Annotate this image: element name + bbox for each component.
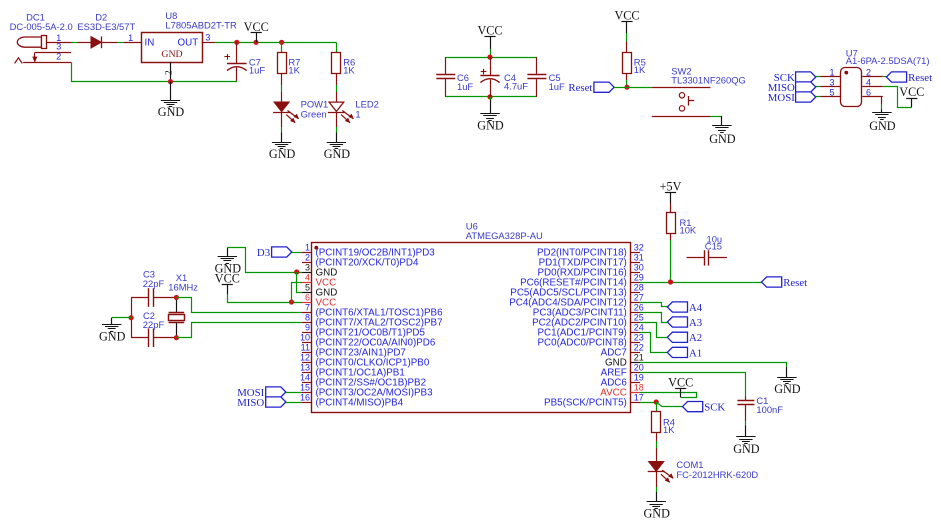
- svg-text:A1-6PA-2.5DSA(71): A1-6PA-2.5DSA(71): [846, 55, 930, 66]
- resistor R6 1K: [332, 53, 341, 74]
- wire U6 pin24 to A1: [640, 333, 667, 353]
- wire pin3 to pin5: [297, 272, 303, 293]
- crystal X1 16MHz: [168, 272, 198, 338]
- svg-text:31: 31: [634, 253, 644, 263]
- U6 pin 26 PC3(ADC3/PCINT11): [533, 303, 644, 319]
- svg-text:Green: Green: [301, 108, 327, 119]
- svg-text:SCK: SCK: [704, 402, 725, 414]
- net flag Reset (left of R5): [594, 82, 614, 92]
- svg-text:GND: GND: [99, 329, 126, 343]
- U6 pin 29 PC6(RESET#/PCINT14): [520, 273, 644, 289]
- svg-text:9: 9: [305, 323, 310, 333]
- wire U6 pin29 to Reset flag: [640, 282, 762, 284]
- svg-text:GND: GND: [324, 147, 351, 161]
- svg-text:22: 22: [634, 343, 644, 353]
- svg-text:21: 21: [634, 353, 644, 363]
- net flag Reset (right of U7): [886, 72, 906, 82]
- U6 pin 25 PC2(ADC2/PCINT10): [532, 313, 644, 329]
- svg-text:1K: 1K: [343, 64, 355, 75]
- wire D3 flag to pin1: [292, 252, 302, 254]
- svg-text:4.7uF: 4.7uF: [504, 81, 528, 92]
- U6 pin 27 PC4(ADC4/SDA/PCINT12): [509, 293, 644, 309]
- U6 pin 2 (PCINT20/XCK/T0)PD4: [302, 253, 419, 269]
- net flag SCK (to U7 pin1): [796, 72, 816, 82]
- diode D2 ES3D-E3/57T: [77, 12, 135, 49]
- svg-text:GND: GND: [161, 49, 182, 60]
- svg-text:1: 1: [829, 68, 834, 78]
- capacitor C1 100nF: [737, 395, 783, 422]
- svg-text:26: 26: [634, 303, 644, 313]
- svg-text:1: 1: [355, 108, 360, 119]
- capacitor C4 4.7uF (polarized): [480, 57, 528, 97]
- svg-text:24: 24: [634, 323, 644, 333]
- svg-text:3: 3: [56, 42, 61, 52]
- U6 pin 7 (PCINT6/XTAL1/TOSC1)PB6: [302, 303, 443, 319]
- svg-text:22pF: 22pF: [143, 278, 165, 289]
- wire U6 pin18 AVCC to VCC: [640, 393, 697, 398]
- U6 pin 8 (PCINT7/XTAL2/TOSC2)PB7: [302, 313, 443, 329]
- wire U6 pin26 to A3: [640, 313, 667, 323]
- svg-text:23: 23: [634, 333, 644, 343]
- svg-text:ES3D-E3/57T: ES3D-E3/57T: [77, 21, 135, 32]
- svg-text:PB5(SCK/PCINT5): PB5(SCK/PCINT5): [544, 398, 627, 409]
- svg-text:VCC: VCC: [899, 85, 924, 99]
- capacitor C2 22pF: [131, 310, 176, 347]
- U6 pin 6 VCC: [302, 293, 336, 309]
- wire XTAL1 to U6 pin7: [176, 298, 302, 313]
- U6 pin 12 (PCINT0/CLKO/ICP1)PB0: [300, 353, 430, 369]
- ground GND (below C1): [745, 426, 747, 438]
- wire cap group top rail: [446, 57, 537, 59]
- svg-text:1K: 1K: [663, 424, 675, 435]
- svg-text:GND: GND: [733, 442, 760, 456]
- svg-text:27: 27: [634, 293, 644, 303]
- svg-text:32: 32: [634, 243, 644, 253]
- ground GND (below LED2): [336, 133, 338, 143]
- svg-text:GND: GND: [269, 147, 296, 161]
- wire R7 to POW1: [281, 73, 283, 85]
- net flag D3 (U6 pin1): [272, 247, 292, 257]
- junction at C7: [234, 40, 239, 45]
- connector DC1 DC-005-5A-2.0 (DC barrel jack): [10, 12, 73, 64]
- U6 pin 1 (PCINT19/OC2B/INT1)PD3: [302, 243, 435, 259]
- wire reset node to SW2: [614, 87, 627, 89]
- svg-text:6: 6: [305, 293, 310, 303]
- svg-text:22pF: 22pF: [143, 319, 165, 330]
- svg-text:ATMEGA328P-AU: ATMEGA328P-AU: [466, 230, 543, 241]
- capacitor C6 1uF: [436, 57, 473, 97]
- svg-text:25: 25: [634, 313, 644, 323]
- wire R4 to COM1: [656, 433, 658, 441]
- svg-text:2: 2: [56, 51, 61, 61]
- svg-text:Reset: Reset: [908, 72, 932, 84]
- U6 pin 22 ADC7: [601, 343, 644, 359]
- wire MISO flag to pin16: [286, 402, 302, 404]
- svg-text:3: 3: [829, 78, 834, 88]
- junction XTAL2: [174, 335, 179, 340]
- ground GND (cap group): [490, 100, 492, 114]
- capacitor C15 10u: [687, 233, 727, 265]
- svg-text:30: 30: [634, 263, 644, 273]
- svg-text:GND: GND: [869, 119, 896, 133]
- U6 pin 20 AREF: [601, 363, 644, 379]
- switch SW2 TL3301NF260QG: [652, 66, 746, 117]
- U6 pin 30 PD0(RXD/PCINT16): [538, 263, 644, 279]
- junction crystal gnd: [129, 315, 134, 320]
- ground GND (left of U6): [227, 248, 229, 257]
- svg-text:16MHz: 16MHz: [168, 281, 198, 292]
- wire R5 to reset node: [626, 73, 628, 80]
- svg-text:A1: A1: [689, 347, 702, 359]
- wire XTAL2 to U6 pin8: [176, 323, 302, 338]
- svg-text:3: 3: [205, 33, 210, 43]
- svg-text:Reset: Reset: [568, 82, 592, 94]
- net flag SCK (pin17): [683, 402, 703, 412]
- wire POW1 to ground: [281, 112, 283, 127]
- svg-text:12: 12: [300, 353, 310, 363]
- wire DC1 pin1 to D2 anode: [72, 42, 78, 44]
- U6 pin 18 AVCC: [600, 383, 644, 399]
- resistor R7 1K: [278, 53, 287, 74]
- wire MOSI flag to U7: [816, 96, 821, 98]
- svg-text:1: 1: [128, 33, 133, 43]
- junction at VCC stub: [253, 40, 258, 45]
- wire U7 pin4 to VCC: [883, 87, 912, 108]
- capacitor C5 1uF: [527, 57, 565, 97]
- wire MISO flag to U7: [816, 86, 821, 88]
- U6 pin 4 VCC: [302, 273, 336, 289]
- U6 pin 11 (PCINT23/AIN1)PD7: [301, 343, 406, 359]
- regulator U8 L7805ABD2T-TR: [124, 10, 237, 63]
- svg-text:A4: A4: [689, 302, 703, 314]
- svg-text:7: 7: [305, 303, 310, 313]
- wire U6 pin17 to SCK node: [640, 402, 656, 404]
- net flag MISO (to U7 pin3): [796, 82, 816, 92]
- wire U6 pin27 to A4: [640, 303, 667, 307]
- ground GND (below SW2): [721, 116, 723, 126]
- svg-text:20: 20: [634, 363, 644, 373]
- svg-text:GND: GND: [709, 132, 736, 146]
- U6 pin 31 PD1(TXD/PCINT17): [539, 253, 644, 269]
- wire D2 cathode to U8 IN: [117, 42, 124, 44]
- svg-text:MISO: MISO: [237, 397, 264, 409]
- svg-text:GND: GND: [158, 105, 185, 119]
- svg-text:VCC: VCC: [244, 20, 269, 34]
- wire U6 pin21 to ground: [640, 363, 787, 368]
- microcontroller U6 ATMEGA328P-AU: [312, 221, 631, 413]
- svg-text:A3: A3: [689, 317, 702, 329]
- svg-text:Reset: Reset: [783, 277, 807, 289]
- wire GND to U6 pin3: [227, 248, 302, 273]
- svg-text:1K: 1K: [634, 64, 646, 75]
- svg-text:GND: GND: [774, 382, 801, 396]
- wire to ground (cap group): [490, 97, 492, 100]
- U6 pin 15 (PCINT3/OC2A/MOSI)PB3: [300, 383, 433, 399]
- svg-text:16: 16: [300, 393, 310, 403]
- junction at U8 GND: [168, 79, 173, 84]
- wire pin6 to pin4: [292, 283, 303, 303]
- pin 2 of U8 to ground rail: [170, 62, 172, 82]
- net flag A4: [667, 302, 687, 312]
- svg-text:C15: C15: [705, 241, 722, 252]
- wire R6 to LED2: [336, 73, 338, 85]
- junction at pin3: [294, 269, 299, 274]
- connector U7 A1-6PA-2.5DSA(71): [820, 47, 929, 106]
- junction bottom of C4: [487, 94, 492, 99]
- ground GND (below U7): [881, 110, 883, 113]
- net flag A1: [667, 347, 687, 357]
- net flag A2: [667, 332, 687, 342]
- LED POW1 Green: [274, 102, 289, 111]
- wire C1 to ground: [745, 421, 747, 425]
- U6 pin 16 (PCINT4/MISO)PB4: [300, 393, 404, 409]
- wire COM1 to ground: [656, 472, 658, 487]
- net flag MOSI (to U7 pin5): [796, 92, 816, 102]
- U6 pin 3 GND: [302, 263, 337, 279]
- U6 pin 9 (PCINT21/OC0B/T1)PD5: [302, 323, 425, 339]
- capacitor C3 22pF: [131, 269, 176, 307]
- svg-text:10K: 10K: [680, 225, 697, 236]
- wire VCC rail to R6: [336, 42, 338, 52]
- ground GND (below U8): [170, 82, 172, 101]
- LED COM1 FC-2012HRK-620D: [649, 462, 664, 471]
- wire to crystal ground: [112, 317, 131, 319]
- LED LED2 1: [329, 102, 344, 111]
- svg-text:15: 15: [300, 383, 310, 393]
- wire U6 pin20 AREF to C1: [640, 373, 746, 397]
- svg-text:D3: D3: [257, 247, 270, 259]
- wire R1 to reset net: [670, 234, 672, 240]
- net flag MOSI (U6 pin15): [266, 387, 286, 397]
- svg-text:2: 2: [305, 253, 310, 263]
- wire cap group bottom rail: [446, 96, 537, 98]
- resistor R4 1K: [652, 412, 661, 433]
- U6 pin 5 GND: [302, 283, 337, 299]
- svg-text:(PCINT4/MISO)PB4: (PCINT4/MISO)PB4: [316, 398, 404, 409]
- svg-text:14: 14: [300, 373, 310, 383]
- svg-text:1K: 1K: [288, 64, 300, 75]
- svg-text:11: 11: [301, 343, 310, 353]
- wire U7 pin6 to ground: [881, 97, 883, 104]
- svg-text:10: 10: [300, 333, 310, 343]
- U6 pin 10 (PCINT22/OC0A/AIN0)PD6: [300, 333, 436, 349]
- svg-text:6: 6: [866, 88, 871, 98]
- ground GND (crystal): [111, 318, 113, 325]
- capacitor C7 1uF (polarized): [224, 42, 265, 81]
- junction top of C4: [487, 55, 492, 60]
- svg-text:13: 13: [300, 363, 310, 373]
- svg-text:GND: GND: [643, 507, 670, 521]
- svg-text:FC-2012HRK-620D: FC-2012HRK-620D: [676, 469, 758, 480]
- wire MOSI flag to pin15: [286, 392, 302, 394]
- svg-text:MOSI: MOSI: [768, 92, 795, 104]
- wire ground return rail: [72, 62, 238, 81]
- svg-text:DC-005-5A-2.0: DC-005-5A-2.0: [10, 21, 73, 32]
- svg-text:L7805ABD2T-TR: L7805ABD2T-TR: [165, 19, 237, 30]
- net flag A3: [667, 317, 687, 327]
- svg-text:VCC: VCC: [668, 375, 693, 389]
- wire VCC to U6 pin6: [228, 294, 303, 303]
- svg-text:8: 8: [305, 313, 310, 323]
- wire SCK flag to U7: [816, 76, 821, 78]
- U6 pin 28 PC5(ADC5/SCL/PCINT13): [510, 283, 644, 299]
- svg-text:TL3301NF260QG: TL3301NF260QG: [671, 75, 746, 86]
- svg-text:2: 2: [165, 70, 175, 75]
- svg-text:VCC: VCC: [477, 24, 502, 38]
- junction pin17: [654, 399, 659, 404]
- U6 pin 23 PC0(ADC0/PCINT8): [538, 333, 644, 349]
- junction at pin6: [289, 299, 294, 304]
- svg-text:18: 18: [634, 383, 644, 393]
- junction XTAL1: [174, 295, 179, 300]
- svg-text:VCC: VCC: [614, 9, 639, 23]
- svg-text:OUT: OUT: [178, 38, 199, 49]
- svg-text:1uF: 1uF: [457, 81, 473, 92]
- wire U6 pin25 to A2: [640, 323, 667, 338]
- svg-text:29: 29: [634, 273, 644, 283]
- svg-text:4: 4: [866, 78, 871, 88]
- wire LED2 to ground: [336, 112, 338, 127]
- svg-text:5: 5: [305, 283, 310, 293]
- U6 pin 24 PC1(ADC1/PCINT9): [538, 323, 644, 339]
- junction reset node: [624, 85, 629, 90]
- U6 pin 17 PB5(SCK/PCINT5): [544, 393, 644, 409]
- svg-text:3: 3: [305, 263, 310, 273]
- wire SW2 to ground: [710, 116, 722, 118]
- U6 pin 19 ADC6: [601, 373, 644, 389]
- svg-text:+5V: +5V: [660, 179, 682, 193]
- svg-text:2: 2: [866, 68, 871, 78]
- svg-text:17: 17: [634, 393, 644, 403]
- ground GND (below POW1): [281, 133, 283, 143]
- svg-text:4: 4: [305, 273, 310, 283]
- wire to SCK flag: [656, 402, 682, 407]
- svg-text:100nF: 100nF: [756, 404, 783, 415]
- svg-text:28: 28: [634, 283, 644, 293]
- U6 pin 21 GND: [605, 353, 644, 369]
- wire VCC rail from U8 OUT: [215, 42, 337, 44]
- ground GND (below COM1): [656, 492, 658, 502]
- svg-text:5: 5: [829, 88, 834, 98]
- U6 pin 13 (PCINT1/OC1A)PB1: [300, 363, 405, 379]
- net flag MISO (U6 pin16): [266, 397, 286, 407]
- junction reset/R1: [668, 279, 673, 284]
- svg-text:A2: A2: [689, 332, 702, 344]
- svg-text:IN: IN: [145, 38, 155, 49]
- ground GND (pin21): [786, 367, 788, 377]
- junction at R7: [279, 40, 284, 45]
- resistor R1 10K: [670, 204, 672, 213]
- svg-text:1: 1: [305, 243, 310, 253]
- wire pin17 to R4: [656, 402, 658, 412]
- wire U7 pin2 to Reset flag: [883, 76, 887, 78]
- svg-text:GND: GND: [477, 118, 504, 132]
- svg-text:1uF: 1uF: [249, 64, 265, 75]
- wire VCC to R7: [281, 42, 283, 52]
- resistor R5 1K: [626, 42, 628, 53]
- svg-text:VCC: VCC: [215, 272, 240, 286]
- U6 pin 14 (PCINT2/SS#/OC1B)PB2: [300, 373, 426, 389]
- svg-text:19: 19: [634, 373, 644, 383]
- U6 pin 32 PD2(INT0/PCINT18): [537, 243, 644, 259]
- wire crystal left rail: [131, 298, 133, 338]
- svg-text:1uF: 1uF: [549, 81, 565, 92]
- net flag Reset (right of R1): [762, 277, 782, 287]
